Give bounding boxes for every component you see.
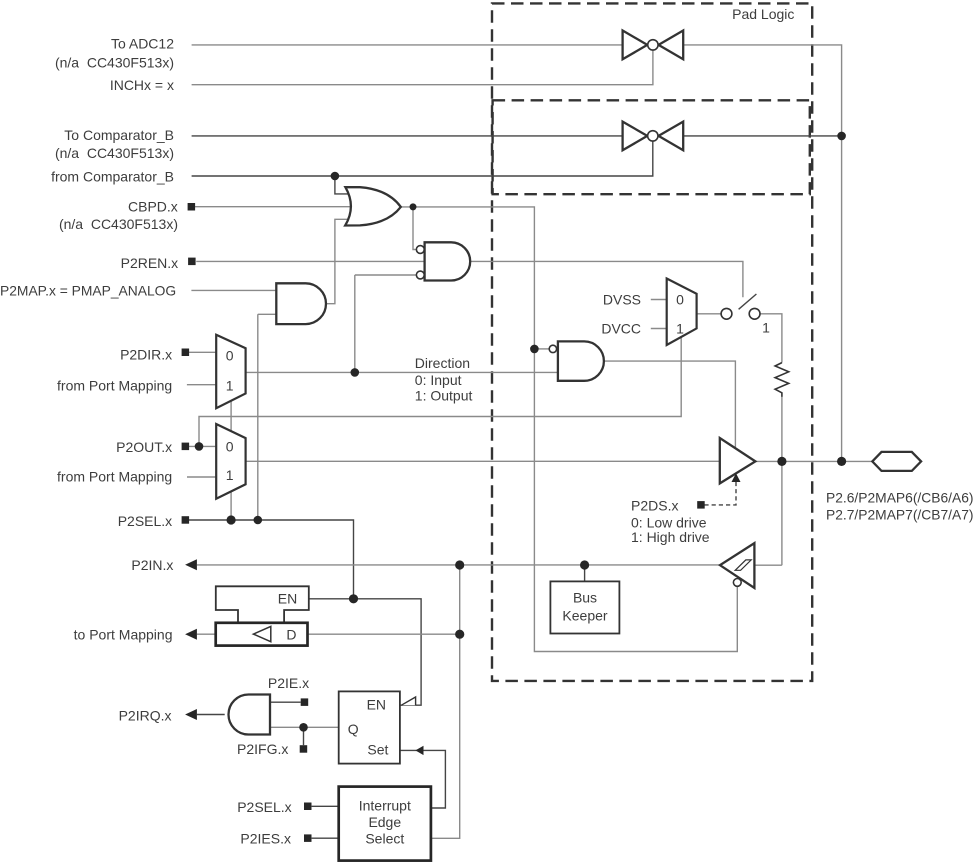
svg-text:Edge: Edge	[368, 814, 401, 830]
svg-text:P2IN.x: P2IN.x	[131, 557, 173, 573]
svg-text:P2SEL.x: P2SEL.x	[237, 799, 291, 815]
svg-text:INCHx = x: INCHx = x	[110, 77, 174, 93]
svg-text:Q: Q	[348, 721, 359, 737]
svg-text:Keeper: Keeper	[562, 608, 607, 624]
svg-text:P2SEL.x: P2SEL.x	[118, 513, 172, 529]
svg-text:Interrupt: Interrupt	[359, 798, 411, 814]
svg-text:1: High drive: 1: High drive	[631, 529, 710, 545]
svg-text:P2.7/P2MAP7(/CB7/A7): P2.7/P2MAP7(/CB7/A7)	[826, 506, 974, 522]
svg-text:1: 1	[676, 321, 684, 337]
svg-text:0: 0	[226, 348, 234, 364]
svg-text:from Port Mapping: from Port Mapping	[57, 378, 172, 394]
svg-text:1: 1	[762, 320, 770, 336]
svg-text:EN: EN	[367, 697, 386, 713]
svg-text:0: Low drive: 0: Low drive	[631, 514, 707, 530]
svg-text:Direction: Direction	[415, 355, 470, 371]
svg-text:Set: Set	[367, 741, 388, 757]
svg-text:To ADC12: To ADC12	[111, 36, 174, 52]
svg-text:P2DIR.x: P2DIR.x	[120, 347, 172, 363]
svg-text:D: D	[286, 627, 296, 643]
svg-text:P2IRQ.x: P2IRQ.x	[119, 707, 172, 723]
svg-text:Bus: Bus	[573, 590, 597, 606]
svg-text:to Port Mapping: to Port Mapping	[74, 626, 173, 642]
svg-text:CBPD.x: CBPD.x	[128, 199, 178, 215]
svg-text:(n/a CC430F513x): (n/a CC430F513x)	[55, 145, 174, 161]
svg-text:P2IES.x: P2IES.x	[240, 831, 291, 847]
svg-text:P2REN.x: P2REN.x	[121, 255, 179, 271]
svg-text:1: 1	[226, 377, 234, 393]
svg-text:1: 1	[226, 467, 234, 483]
svg-text:DVSS: DVSS	[603, 292, 641, 308]
svg-text:Select: Select	[365, 831, 404, 847]
svg-text:0: 0	[226, 438, 234, 454]
svg-text:P2MAP.x = PMAP_ANALOG: P2MAP.x = PMAP_ANALOG	[0, 283, 176, 299]
svg-text:P2.6/P2MAP6(/CB6/A6): P2.6/P2MAP6(/CB6/A6)	[826, 490, 974, 506]
svg-text:P2IFG.x: P2IFG.x	[237, 741, 288, 757]
svg-text:EN: EN	[278, 591, 297, 607]
svg-text:(n/a CC430F513x): (n/a CC430F513x)	[59, 216, 178, 232]
svg-text:1: Output: 1: Output	[415, 387, 473, 403]
svg-text:0: Input: 0: Input	[415, 372, 462, 388]
svg-text:P2OUT.x: P2OUT.x	[116, 439, 172, 455]
svg-text:from Port Mapping: from Port Mapping	[57, 469, 172, 485]
svg-text:DVCC: DVCC	[601, 321, 641, 337]
svg-text:P2IE.x: P2IE.x	[268, 675, 309, 691]
svg-text:(n/a CC430F513x): (n/a CC430F513x)	[55, 55, 174, 71]
svg-text:0: 0	[676, 292, 684, 308]
svg-text:Pad Logic: Pad Logic	[732, 6, 794, 22]
svg-text:from Comparator_B: from Comparator_B	[51, 169, 174, 185]
svg-text:To Comparator_B: To Comparator_B	[64, 127, 174, 143]
svg-text:P2DS.x: P2DS.x	[631, 498, 678, 514]
